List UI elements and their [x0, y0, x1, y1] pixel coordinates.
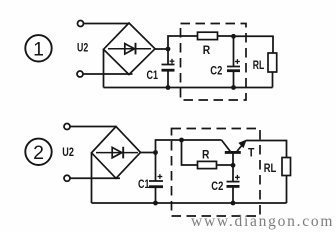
plus polarity mark of C1 (circuit 2)	[158, 174, 163, 179]
transistor T (pass transistor)	[222, 140, 246, 166]
dashed filter box (circuit 1)	[181, 24, 247, 101]
load resistor RL (circuit 1)	[268, 53, 277, 72]
input terminal top (circuit 2)	[64, 124, 70, 130]
node E junction (base / R / C2)	[231, 163, 236, 168]
svg-text:www.diangon.com: www.diangon.com	[191, 213, 334, 230]
wire: bottom terminal to bridge bottom vertex	[83, 73, 133, 75]
wire: resistor R to base node E	[217, 164, 234, 166]
svg-text:U2: U2	[77, 40, 88, 54]
circuit number badge 2	[25, 139, 51, 165]
wire: top terminal to bridge top vertex	[84, 23, 130, 25]
bridge rectifier U2 diamond (circuit 1)	[104, 23, 156, 75]
wire: top terminal to bridge top vertex (circuit 2)	[70, 126, 117, 128]
bottom rail (circuit 2)	[92, 202, 287, 204]
junction: C2 bottom on rail	[231, 85, 236, 90]
wire: bridge right vertex to node A	[155, 48, 168, 50]
load resistor RL (circuit 2)	[282, 158, 291, 176]
plus polarity mark of C2 (circuit 2)	[235, 175, 240, 180]
wire: resistor R to node B	[218, 35, 234, 37]
input terminal top (circuit 1)	[78, 21, 84, 27]
wire: RL bottom to rail	[272, 72, 274, 88]
wire: node B right and down to load RL	[234, 36, 274, 53]
wire: RL bottom to rail (circuit 2)	[286, 176, 288, 204]
capacitor C1 (circuit 1)	[162, 49, 175, 88]
svg-text:1: 1	[33, 38, 44, 60]
plus polarity mark of C1 (circuit 1)	[170, 59, 175, 64]
input terminal bottom (circuit 2)	[64, 175, 70, 181]
resistor R (circuit 1)	[198, 32, 218, 39]
node D junction (collector rail / R top)	[179, 138, 184, 143]
svg-text:C2: C2	[211, 179, 223, 193]
junction: C2 bottom on rail (circuit 2)	[231, 201, 236, 206]
capacitor C2 (circuit 2)	[227, 165, 240, 203]
capacitor C1 (circuit 2)	[149, 153, 163, 204]
svg-text:RL: RL	[253, 58, 264, 72]
node B junction (R / C2 / RL net)	[231, 34, 236, 39]
svg-text:2: 2	[33, 142, 44, 164]
bottom rail (circuit 1)	[104, 87, 273, 89]
node A junction (bridge output / C1 top)	[166, 47, 171, 52]
svg-text:T: T	[248, 146, 255, 160]
wire: node D to transistor collector	[182, 139, 222, 141]
resistor R (circuit 2)	[198, 161, 217, 168]
junction: C1 bottom on rail	[166, 85, 171, 90]
wire: node D down to resistor R (circuit 2)	[182, 140, 198, 165]
plus polarity mark of C2 (circuit 1)	[235, 59, 240, 64]
junction: C1 bottom on rail (circuit 2)	[153, 201, 158, 206]
wire: bridge left vertex down to bottom rail	[103, 49, 105, 87]
svg-text:U2: U2	[62, 145, 74, 159]
bridge rectifier U2 diamond (circuit 2)	[92, 127, 141, 179]
diode inside bridge (circuit 2)	[96, 147, 138, 159]
wire: node C up and right to node D	[156, 140, 182, 153]
svg-text:C1: C1	[138, 177, 150, 191]
wire: bridge right vertex to node C	[141, 152, 156, 154]
svg-text:R: R	[202, 147, 210, 161]
node C junction (bridge output / C1 top)	[153, 150, 158, 155]
circuit number badge 1	[25, 35, 51, 61]
input terminal bottom (circuit 1)	[77, 71, 83, 77]
wire: bridge left vertex down to bottom rail (circuit 2)	[91, 153, 93, 203]
svg-text:R: R	[203, 43, 211, 57]
svg-text:RL: RL	[264, 161, 277, 175]
svg-text:C2: C2	[210, 63, 222, 77]
wire: bottom terminal to bridge bottom vertex (circuit 2)	[70, 177, 120, 179]
wire: node A up and right to resistor R	[168, 36, 198, 49]
wire: emitter to RL (circuit 2)	[246, 141, 287, 158]
dashed regulator box (circuit 2)	[172, 129, 261, 217]
diode inside bridge (circuit 1)	[108, 43, 151, 55]
capacitor C2 (circuit 1)	[227, 36, 240, 87]
svg-text:C1: C1	[147, 68, 159, 82]
